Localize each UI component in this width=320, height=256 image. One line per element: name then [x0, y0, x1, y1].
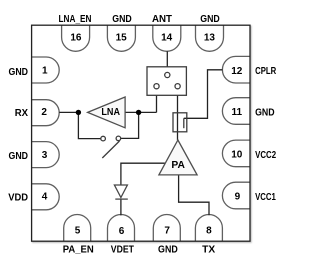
pin 3 GND — [32, 142, 60, 168]
pin 16 LNA_EN — [62, 25, 90, 51]
svg-text:PA: PA — [171, 160, 185, 171]
directional coupler DC1 — [173, 113, 187, 132]
svg-text:3: 3 — [42, 150, 48, 161]
wire PA input tap to detector diode — [121, 163, 166, 185]
svg-text:16: 16 — [70, 32, 82, 43]
svg-text:LNA: LNA — [101, 107, 120, 118]
svg-text:10: 10 — [231, 150, 243, 161]
PA amplifier U-PA — [159, 140, 197, 175]
pin 15 GND — [107, 25, 135, 51]
pin 10 VCC2 — [222, 140, 250, 167]
pin 8 TX — [195, 215, 222, 242]
pin 13 GND — [196, 25, 224, 51]
svg-text:5: 5 — [75, 226, 81, 237]
svg-text:RX: RX — [15, 108, 29, 119]
svg-text:6: 6 — [119, 226, 125, 237]
node B: LNA output junction — [136, 110, 141, 115]
pin 6 VDET — [108, 215, 135, 242]
node A: LNA input junction — [76, 110, 81, 115]
svg-text:14: 14 — [161, 32, 173, 43]
detector diode D1 — [114, 185, 127, 199]
wire diode cathode to VDET pin6 — [120, 199, 122, 215]
svg-text:VDET: VDET — [111, 245, 134, 256]
wire RX pin2 to LNA input node — [59, 111, 78, 113]
bypass switch S2 — [101, 136, 121, 158]
pin 5 PA_EN — [64, 215, 91, 242]
pin 7 GND — [153, 215, 180, 242]
wire node up to switch pole left — [156, 89, 158, 113]
pin 12 CPLR — [222, 56, 250, 83]
wire bypass switch right to LNA output node — [121, 112, 139, 138]
LNA amplifier U-LNA — [88, 97, 126, 128]
svg-text:12: 12 — [231, 66, 243, 77]
svg-text:8: 8 — [206, 226, 212, 237]
svg-text:PA_EN: PA_EN — [63, 245, 94, 256]
pin 2 RX — [32, 100, 60, 126]
svg-text:ANT: ANT — [152, 14, 172, 25]
svg-text:VCC1: VCC1 — [255, 192, 276, 203]
pin 1 GND — [32, 57, 60, 83]
svg-text:GND: GND — [158, 245, 178, 256]
svg-text:GND: GND — [9, 67, 29, 78]
package body — [32, 25, 250, 241]
package outline — [32, 25, 250, 241]
svg-text:GND: GND — [255, 108, 275, 119]
svg-text:13: 13 — [204, 32, 216, 43]
svg-text:GND: GND — [200, 14, 220, 25]
pin 9 VCC1 — [222, 182, 250, 209]
svg-text:11: 11 — [232, 107, 243, 118]
wire LNA input node down to bypass switch — [78, 112, 101, 138]
wire PA output down right to TX pin8 — [179, 175, 209, 215]
svg-text:9: 9 — [235, 192, 241, 203]
wire switch pole right down through coupler to PA — [177, 89, 179, 140]
pin 4 VDD — [32, 184, 60, 210]
svg-text:4: 4 — [42, 192, 48, 203]
pin 11 GND — [222, 98, 250, 125]
svg-text:GND: GND — [112, 14, 132, 25]
svg-text:LNA_EN: LNA_EN — [59, 14, 92, 25]
wire ANT pin14 to switch common — [166, 51, 168, 72]
svg-text:7: 7 — [164, 226, 170, 237]
svg-text:15: 15 — [116, 32, 128, 43]
svg-text:TX: TX — [202, 245, 215, 256]
antenna switch S1 (SPDT box) — [147, 67, 186, 96]
wire LNA output to node — [125, 111, 156, 113]
pin 14 ANT — [153, 25, 181, 51]
svg-text:GND: GND — [9, 151, 29, 162]
svg-text:VDD: VDD — [8, 192, 28, 203]
svg-text:VCC2: VCC2 — [255, 150, 276, 161]
wire coupler tap to CPLR pin12 — [184, 70, 223, 119]
svg-text:CPLR: CPLR — [255, 66, 277, 77]
svg-text:2: 2 — [41, 107, 47, 118]
svg-text:1: 1 — [42, 66, 48, 77]
